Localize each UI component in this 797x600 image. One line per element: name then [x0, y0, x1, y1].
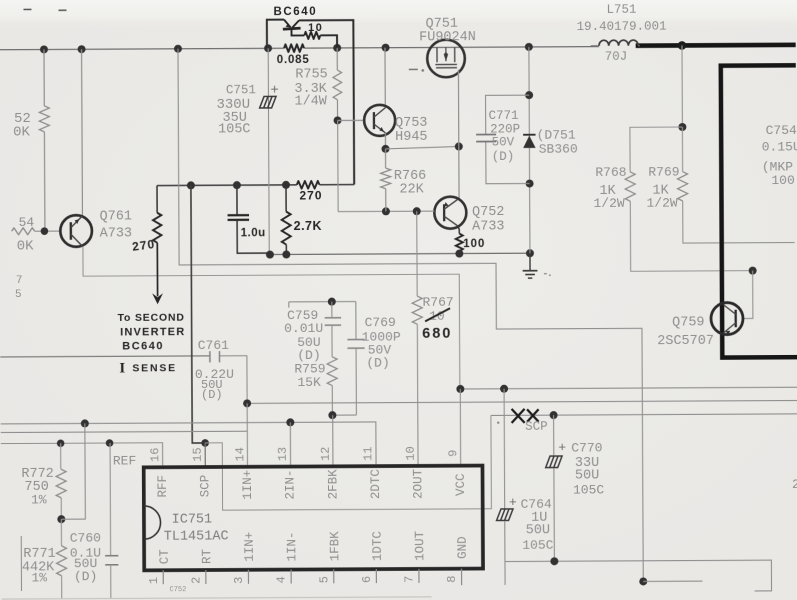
svg-text:TL1451AC: TL1451AC	[164, 529, 229, 544]
svg-text:105C: 105C	[573, 482, 604, 497]
wire Q753 base node down to Q752 base rail	[337, 120, 339, 211]
label 0.085	[277, 54, 310, 66]
svg-text:1%: 1%	[31, 570, 47, 585]
label pin number 15	[191, 447, 205, 461]
label BC640 (handwritten note)	[122, 340, 164, 352]
wire main top supply rail	[0, 47, 599, 50]
label 1.0u	[241, 227, 266, 239]
resistor R768	[625, 172, 635, 201]
label IC pin 13 2IN-	[284, 469, 298, 499]
svg-text:+: +	[270, 83, 278, 99]
wire SCP rail (y402)	[247, 401, 797, 404]
svg-text:680: 680	[422, 326, 452, 342]
svg-text:SENSE: SENSE	[132, 362, 177, 374]
node R772 bottom junction	[57, 515, 65, 523]
label C771 voltage 50V	[492, 135, 515, 149]
inductor L751	[591, 40, 640, 46]
transistor Q761	[60, 215, 92, 247]
label IC pin 16 RFF	[156, 475, 170, 498]
resistor 270 vertical (handwritten)	[153, 186, 162, 243]
node Q751 source junction	[455, 142, 463, 150]
capacitor C764 (electrolytic)	[496, 509, 513, 585]
svg-text:1: 1	[147, 577, 161, 584]
label BC640 (top, handwritten)	[273, 6, 317, 18]
transistor Q752	[434, 197, 466, 229]
label R755 value 3.3K	[294, 82, 327, 97]
IC pins 1-7 bottom ticks	[163, 569, 419, 584]
svg-text:C751: C751	[226, 83, 256, 97]
label pin number 12	[319, 447, 333, 461]
wire C761 to SCP rail corner	[219, 356, 247, 404]
node Q753 base junction	[334, 116, 342, 124]
svg-text:70J: 70J	[605, 50, 628, 64]
label R772 value 750	[24, 480, 48, 495]
label C752 (tiny, under pin2)	[169, 586, 186, 594]
label R766 value 22K	[399, 182, 424, 197]
svg-text:A733: A733	[100, 226, 132, 241]
svg-text:0.15U: 0.15U	[762, 139, 797, 154]
wire pin9 lead	[459, 389, 461, 466]
wire Q752 emitter lead	[457, 226, 459, 234]
svg-text:C754: C754	[766, 123, 797, 138]
node rail253 junction 1.0u/C751	[266, 251, 274, 259]
svg-text:SCP: SCP	[198, 475, 212, 498]
label pin number 1	[147, 577, 161, 584]
label pin number 14	[233, 447, 247, 461]
node Q761 base junction	[41, 227, 49, 235]
label C759	[287, 308, 318, 323]
wire pin15 lead	[204, 443, 206, 467]
label R768	[595, 165, 626, 180]
label Q759 type 2SC5707	[657, 334, 714, 349]
label REF (net name)	[113, 453, 136, 468]
label pin number 8	[445, 575, 459, 582]
wire left edge vertical	[20, 536, 22, 591]
label pin number 16	[148, 448, 162, 462]
label C769	[365, 315, 396, 330]
svg-text:220P: 220P	[490, 122, 520, 136]
label L751	[606, 3, 636, 17]
node top rail junction B	[78, 45, 86, 53]
wire Q752 base rail	[338, 210, 434, 213]
label C759 voltage 50U	[297, 335, 320, 350]
svg-text:+: +	[509, 495, 517, 510]
label Q752 type A733	[472, 219, 504, 234]
label IC751	[172, 512, 213, 527]
resistor 270 horizontal (handwritten)	[297, 181, 320, 189]
label 100 (handwritten)	[463, 238, 485, 250]
label pin number 7	[402, 576, 416, 583]
wire R768/R769 feed from thick rail	[681, 45, 683, 127]
label IC pin 9 VCC	[454, 473, 468, 496]
svg-text:10: 10	[404, 446, 418, 460]
label IC pin 14 1IN+	[241, 470, 255, 500]
wire BC640 collector loop	[267, 19, 354, 185]
IC U751 notch	[144, 506, 161, 539]
capacitor C751 (electrolytic)	[259, 48, 277, 254]
svg-text:5: 5	[15, 289, 22, 301]
svg-text:0.01U: 0.01U	[284, 321, 323, 336]
svg-text:1FBK: 1FBK	[328, 531, 342, 562]
label C751 voltage 35U	[223, 111, 247, 126]
label pin number 2	[189, 577, 203, 584]
transistor Q753	[364, 105, 395, 136]
svg-text:7: 7	[402, 576, 416, 583]
node rail183 junction 1.0u	[233, 181, 241, 189]
label C771 value 220P	[490, 122, 520, 136]
resistor R767	[412, 296, 422, 324]
svg-text:C770: C770	[571, 440, 602, 455]
wire C759 network bottom rail	[332, 414, 356, 416]
svg-text:1/2W: 1/2W	[646, 196, 677, 211]
wire SCP X rail (y415)	[491, 414, 797, 416]
node VCC rail junction pin9	[456, 385, 464, 393]
mark pencil dash near Q751	[409, 69, 424, 72]
label IC pin 8 GND	[456, 536, 470, 559]
svg-text:50U: 50U	[575, 468, 599, 483]
label pin number 5	[317, 576, 331, 583]
label C764 plus	[509, 495, 517, 510]
node VCC rail junction SCP drop	[500, 385, 508, 393]
wire rail 253 (emitter/ground rail)	[270, 253, 530, 254]
label R769	[648, 165, 679, 180]
wire pass-through wire (pin15 node through IC to SCP rail)	[205, 415, 491, 510]
svg-text:12: 12	[319, 447, 333, 461]
label R759	[294, 361, 325, 376]
svg-text:H945: H945	[395, 130, 427, 145]
label L751 value 70J	[605, 50, 628, 64]
label 680 (handwritten)	[422, 326, 452, 342]
svg-text:(D): (D)	[201, 388, 223, 402]
svg-text:22K: 22K	[399, 182, 424, 197]
label C770 plus	[558, 440, 566, 455]
label R768 rating 1/2W	[593, 196, 624, 211]
node SCP rail junction C761	[243, 399, 251, 407]
svg-text:Q752: Q752	[472, 205, 504, 220]
svg-text:R767: R767	[422, 295, 453, 310]
svg-text:1/2W: 1/2W	[593, 196, 624, 211]
svg-text:C764: C764	[521, 497, 552, 512]
capacitor C760	[105, 443, 119, 599]
wire Q751 drain down to source junction	[457, 70, 459, 147]
label SCP	[525, 420, 548, 434]
label Q761 type A733	[100, 226, 132, 241]
label 2.7K	[294, 219, 322, 233]
svg-text:RFF: RFF	[156, 475, 170, 498]
label C770 voltage 50U	[575, 468, 599, 483]
svg-text:2: 2	[792, 477, 797, 492]
svg-text:(D): (D)	[492, 150, 515, 164]
svg-text:To SECOND: To SECOND	[118, 312, 185, 324]
svg-text:1.0u: 1.0u	[241, 227, 266, 239]
svg-text:16: 16	[148, 448, 162, 462]
label pin number 10	[404, 446, 418, 460]
label IC pin 2 RT	[200, 549, 214, 565]
svg-text:1IN+: 1IN+	[241, 470, 255, 500]
label pin number 11	[361, 446, 375, 460]
label left edge fragment 7	[16, 275, 23, 287]
wire pin12 lead	[332, 415, 334, 466]
wire R755 bottom lead to Q753 base node	[336, 100, 338, 121]
node rail442 junction C760	[106, 439, 114, 447]
label Q753	[395, 116, 427, 131]
node rail561 junction C770	[550, 557, 558, 565]
wire rail 430 (pin14 feed)	[1, 431, 248, 432]
label R772	[21, 467, 53, 482]
ground symbol	[523, 253, 551, 278]
wire R767 top lead (from Q752 base)	[416, 211, 418, 296]
wire R755 top lead	[336, 48, 338, 70]
svg-text:0.085: 0.085	[277, 54, 310, 66]
svg-text:54: 54	[19, 215, 35, 230]
label C764 voltage 50U	[526, 523, 550, 538]
label C754	[766, 123, 797, 138]
svg-text:Q759: Q759	[672, 315, 704, 330]
svg-text:10: 10	[308, 22, 323, 34]
wire pin14 lead	[246, 403, 248, 466]
label C754 type (MKP	[762, 159, 793, 174]
node rail421 junction left	[81, 419, 89, 427]
wire Q761 collector (top rail to Q761)	[81, 49, 84, 215]
svg-text:1IN-: 1IN-	[285, 531, 299, 561]
node top rail junction G (C771/D751 tap)	[525, 43, 533, 51]
label Q761	[100, 209, 132, 224]
node rail183 junction 2.7K	[282, 181, 290, 189]
wire thick output rail	[636, 43, 796, 48]
wire VCC rail (y389)	[460, 387, 797, 389]
node rail B bottom junction	[639, 577, 647, 585]
wire Q753 base wire	[338, 119, 365, 121]
svg-text:100: 100	[463, 238, 485, 250]
wire C771/D751 vertical	[529, 47, 530, 253]
svg-text:VCC: VCC	[454, 473, 468, 496]
node Q759 base junction	[749, 267, 757, 275]
label IC pin 4 1IN-	[285, 531, 299, 561]
label R771 tol 1%	[31, 570, 47, 585]
label IC pin 7 1OUT	[413, 530, 427, 561]
label C771	[489, 109, 519, 123]
wire Q761 emitter to rail A	[83, 245, 460, 391]
node C759 top junction	[328, 298, 336, 306]
svg-text:0K: 0K	[13, 124, 30, 140]
svg-text:19.40179.001: 19.40179.001	[577, 20, 667, 34]
label INVERTER (handwritten)	[120, 326, 185, 338]
label C759 value 0.01U	[284, 321, 323, 336]
node top rail junction A	[40, 45, 48, 53]
svg-text:GND: GND	[456, 536, 470, 559]
wire rail 442 (REF rail to pin16)	[1, 443, 163, 468]
svg-text:R768: R768	[595, 165, 626, 180]
label C761	[198, 338, 229, 353]
label C754 voltage 100	[771, 173, 794, 188]
wire arrow to second inverter	[152, 243, 163, 305]
label C770 temp 105C	[573, 482, 604, 497]
label IC pin 3 1IN+	[243, 532, 257, 562]
wire Q753 emitter to Q751 source rail	[385, 146, 458, 148]
svg-text:Q753: Q753	[395, 116, 427, 131]
label R769 rating 1/2W	[646, 196, 677, 211]
wire R769 bottom lead	[683, 200, 795, 243]
svg-text:REF: REF	[113, 453, 136, 468]
svg-text:(D): (D)	[366, 356, 389, 371]
svg-text:R755: R755	[295, 67, 327, 82]
label IC pin 5 1FBK	[328, 531, 342, 562]
svg-text:(D): (D)	[74, 569, 97, 584]
wire rail B (to Q759 network)	[178, 46, 643, 584]
node thick rail junction (R768/R769 tap)	[678, 41, 687, 50]
node rail253 junction ground	[526, 249, 534, 257]
node pin15 junction	[201, 439, 209, 447]
label C754 value 0.15U	[762, 139, 797, 154]
svg-text:1DTC: 1DTC	[371, 531, 385, 561]
wire R768 bottom lead to Q759 base	[630, 201, 752, 272]
svg-text:5: 5	[317, 576, 331, 583]
label IC pin 1 CT	[158, 549, 172, 565]
resistor 100 (handwritten)	[456, 233, 463, 253]
wire pin8 GND lead	[461, 569, 463, 585]
svg-text:C761: C761	[198, 338, 229, 353]
svg-text:2: 2	[189, 577, 203, 584]
label R755 rating 1/4W	[294, 94, 327, 109]
label D751 type SB360	[539, 142, 578, 157]
svg-text:2OUT: 2OUT	[411, 468, 425, 499]
label C760	[70, 531, 101, 546]
resistor 2.7K (handwritten)	[281, 185, 290, 255]
label R767	[422, 295, 453, 310]
svg-text:10: 10	[429, 309, 445, 324]
svg-text:2SC5707: 2SC5707	[657, 334, 714, 349]
label R755	[295, 67, 327, 82]
label I SENSE (handwritten)	[119, 360, 177, 376]
label R767 old value 10 (struck out)	[425, 308, 450, 324]
label C769 code (D)	[366, 356, 389, 371]
label left edge fragment 5	[15, 289, 22, 301]
label TO SECOND (handwritten)	[118, 312, 185, 324]
capacitor C761	[210, 351, 220, 362]
label C769 value 1000P	[362, 329, 401, 344]
resistor 10 (handwritten)	[304, 32, 337, 48]
node top rail junction D (C751 tap)	[264, 44, 272, 52]
label pin number 6	[360, 576, 374, 583]
svg-text:50U: 50U	[526, 523, 550, 538]
label 270 horizontal	[299, 188, 322, 202]
label IC pin 15 SCP	[198, 475, 212, 498]
svg-text:270: 270	[131, 237, 156, 254]
node top rail junction C	[174, 45, 182, 53]
label C760 value 0.1U	[70, 546, 101, 561]
label IC pin 10 2OUT	[411, 468, 425, 499]
label R771	[23, 547, 55, 562]
label D751	[537, 128, 576, 143]
node Q752 base junction R766	[382, 207, 390, 215]
transistor Q751 (MOSFET)	[427, 40, 465, 78]
svg-text:0K: 0K	[17, 238, 34, 254]
svg-text:BC640: BC640	[122, 340, 164, 352]
IC U751 body (TL1451AC)	[144, 466, 483, 571]
svg-text:9: 9	[446, 450, 460, 457]
label IC pin 11 2DTC	[369, 469, 383, 499]
node rail253 junction 100	[455, 250, 463, 258]
svg-text:7: 7	[16, 275, 23, 287]
label C751	[226, 83, 256, 97]
svg-text:L751: L751	[606, 3, 636, 17]
svg-text:1%: 1%	[31, 492, 47, 507]
node rail421 junction pin13	[286, 418, 294, 426]
wire thick box (C754 compartment)	[721, 65, 797, 357]
node C771 top junction	[525, 91, 533, 99]
svg-text:C752: C752	[169, 586, 186, 594]
svg-text:CT: CT	[158, 549, 172, 565]
capacitor C759	[325, 302, 342, 326]
label R769 value 1K	[652, 184, 669, 199]
wire rail 561 (C770 bottom rail)	[505, 560, 772, 592]
label C751 plus	[270, 83, 278, 99]
svg-text:50V: 50V	[492, 135, 515, 149]
svg-text:2IN-: 2IN-	[284, 469, 298, 499]
svg-text:270: 270	[299, 188, 322, 202]
resistor R752 (left edge, 750K)	[39, 49, 50, 230]
mark bottom edge smudge	[2, 597, 432, 599]
label C769 voltage 50V	[368, 343, 392, 358]
wire R767 bottom lead to pin10	[416, 324, 419, 466]
svg-text:(D751: (D751	[537, 128, 576, 143]
svg-text:RT: RT	[200, 549, 214, 565]
label R752 fragment	[13, 111, 31, 141]
node rail183 junction C761 drop	[187, 181, 195, 189]
svg-text:8: 8	[445, 575, 459, 582]
wire stub from rail B bottom junction	[643, 580, 702, 582]
svg-text:2DTC: 2DTC	[369, 469, 383, 499]
label L751 part number	[577, 20, 667, 34]
svg-text:3: 3	[232, 577, 246, 584]
resistor R771	[56, 519, 66, 599]
label Q759	[672, 315, 704, 330]
svg-text:C769: C769	[365, 315, 396, 330]
resistor R755	[333, 70, 342, 100]
wire R768 top lead	[630, 127, 683, 172]
svg-text:13: 13	[276, 447, 290, 461]
label C759 code (D)	[297, 348, 320, 363]
label R772 tol 1%	[31, 492, 47, 507]
svg-text:INVERTER: INVERTER	[120, 326, 185, 338]
capacitor C770 (electrolytic)	[545, 415, 562, 561]
svg-text:Q761: Q761	[100, 209, 132, 224]
svg-text:SCP: SCP	[525, 420, 548, 434]
svg-text:1IN+: 1IN+	[243, 532, 257, 562]
label R754 fragment	[17, 215, 35, 255]
label 270 vertical	[131, 237, 156, 254]
label Q753 type H945	[395, 130, 427, 145]
svg-text:14: 14	[233, 447, 247, 461]
capacitor 1.0u (handwritten)	[227, 185, 270, 253]
label C761 code (D)	[201, 388, 223, 402]
resistor R766	[381, 149, 391, 212]
svg-text:BC640: BC640	[273, 6, 317, 18]
label C764 temp 105C	[522, 538, 553, 553]
label TL1451AC	[164, 529, 229, 544]
mark X X (crossed out connection)	[512, 409, 539, 423]
svg-text:100: 100	[771, 173, 794, 188]
label C764	[521, 497, 552, 512]
wire rail 421 (pin13/pin11)	[1, 422, 376, 468]
wire rail 183 (C751/1.0u/2.7K/270 rail)	[157, 185, 354, 186]
svg-text:15: 15	[191, 447, 205, 461]
label Q751 type FU9024N	[419, 30, 476, 45]
label pin number 9	[446, 450, 460, 457]
svg-text:C771: C771	[489, 109, 519, 123]
svg-text:R769: R769	[648, 165, 679, 180]
node top rail junction E (R755 tap)	[333, 44, 341, 52]
